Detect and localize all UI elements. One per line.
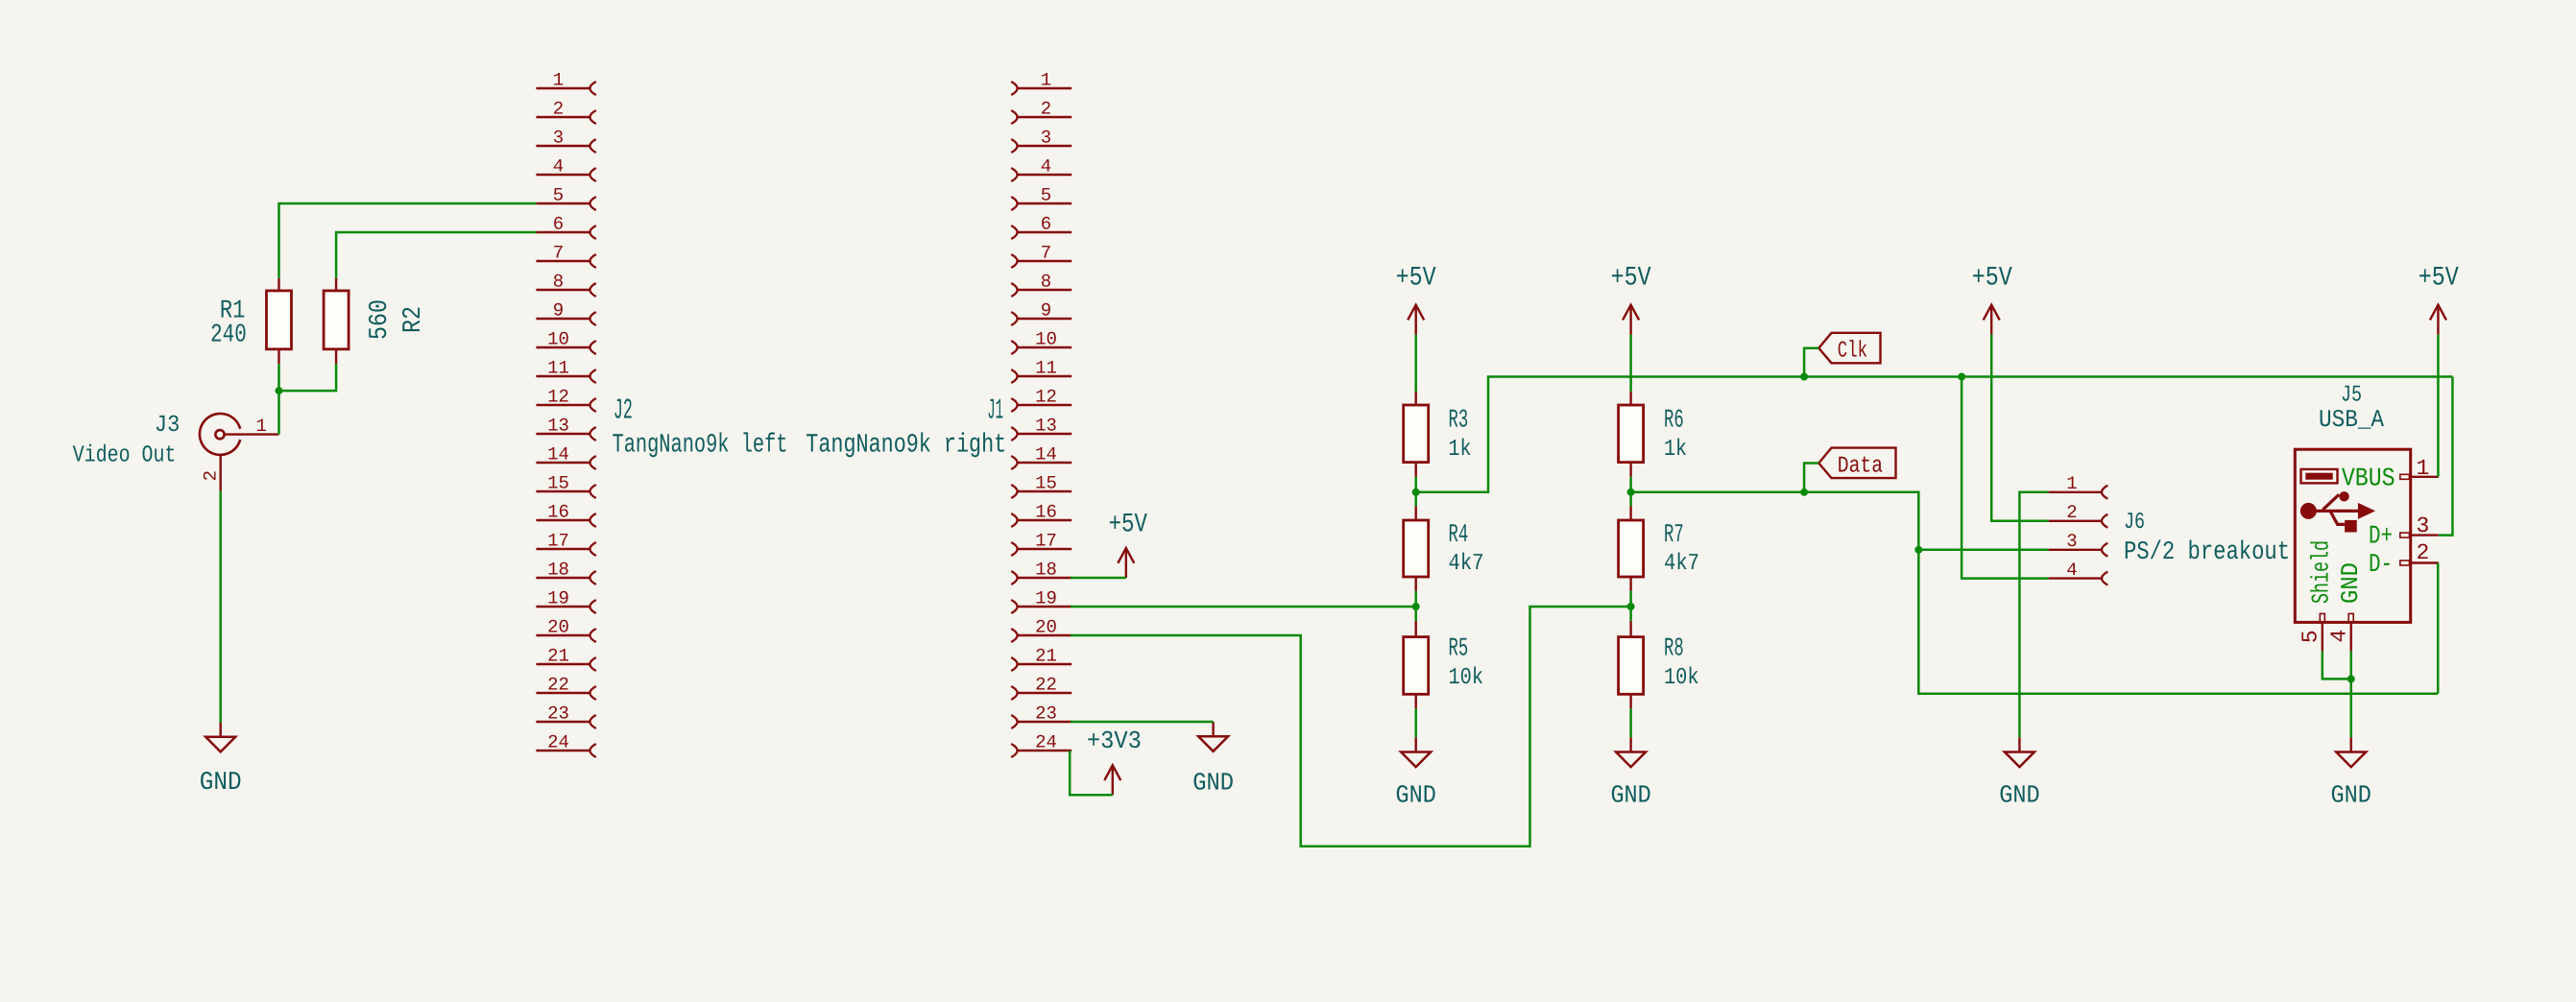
svg-text:24: 24 bbox=[547, 731, 569, 752]
svg-text:10: 10 bbox=[1035, 328, 1057, 349]
svg-text:4: 4 bbox=[1041, 155, 1051, 177]
svg-text:R2: R2 bbox=[399, 306, 428, 333]
svg-text:R8: R8 bbox=[1664, 635, 1684, 664]
svg-text:20: 20 bbox=[1035, 616, 1057, 637]
svg-text:15: 15 bbox=[547, 472, 569, 493]
svg-text:Video Out: Video Out bbox=[73, 443, 177, 469]
svg-text:9: 9 bbox=[1041, 299, 1051, 321]
svg-text:2: 2 bbox=[2416, 540, 2429, 565]
svg-text:17: 17 bbox=[547, 530, 569, 551]
svg-text:1: 1 bbox=[1041, 69, 1051, 90]
svg-text:R7: R7 bbox=[1664, 521, 1684, 550]
svg-text:1: 1 bbox=[2066, 473, 2077, 494]
svg-text:4: 4 bbox=[553, 155, 564, 177]
svg-text:PS/2 breakout: PS/2 breakout bbox=[2124, 538, 2290, 567]
svg-text:4: 4 bbox=[2066, 560, 2077, 581]
svg-text:J1: J1 bbox=[987, 395, 1003, 428]
svg-text:14: 14 bbox=[547, 443, 569, 465]
svg-text:VBUS: VBUS bbox=[2342, 465, 2395, 494]
svg-text:TangNano9k right: TangNano9k right bbox=[806, 430, 1006, 460]
svg-text:10k: 10k bbox=[1664, 665, 1699, 691]
svg-text:10: 10 bbox=[547, 328, 569, 349]
svg-text:R5: R5 bbox=[1449, 635, 1469, 664]
svg-text:11: 11 bbox=[1035, 357, 1057, 378]
svg-text:D-: D- bbox=[2369, 551, 2393, 580]
svg-text:2: 2 bbox=[1041, 98, 1051, 119]
svg-text:3: 3 bbox=[553, 127, 564, 148]
svg-text:GND: GND bbox=[2337, 562, 2365, 604]
svg-text:24: 24 bbox=[1035, 731, 1057, 752]
svg-text:GND: GND bbox=[1192, 769, 1234, 798]
svg-text:1: 1 bbox=[255, 416, 266, 437]
svg-text:18: 18 bbox=[1035, 559, 1057, 580]
svg-text:15: 15 bbox=[1035, 472, 1057, 493]
svg-text:1: 1 bbox=[553, 69, 564, 90]
svg-text:1k: 1k bbox=[1664, 437, 1687, 463]
svg-text:Shield: Shield bbox=[2308, 540, 2336, 604]
svg-text:16: 16 bbox=[1035, 501, 1057, 522]
svg-text:4k7: 4k7 bbox=[1449, 551, 1484, 577]
svg-text:1k: 1k bbox=[1449, 437, 1472, 463]
svg-text:R4: R4 bbox=[1449, 521, 1469, 550]
svg-text:11: 11 bbox=[547, 357, 569, 378]
svg-text:17: 17 bbox=[1035, 530, 1057, 551]
svg-text:12: 12 bbox=[547, 386, 569, 407]
svg-text:240: 240 bbox=[210, 321, 247, 349]
svg-text:13: 13 bbox=[547, 415, 569, 436]
svg-text:19: 19 bbox=[1035, 587, 1057, 608]
svg-text:3: 3 bbox=[2066, 531, 2077, 552]
svg-text:6: 6 bbox=[553, 213, 564, 234]
svg-text:J5: J5 bbox=[2341, 383, 2362, 409]
svg-text:12: 12 bbox=[1035, 386, 1057, 407]
svg-text:13: 13 bbox=[1035, 415, 1057, 436]
svg-text:GND: GND bbox=[1999, 781, 2039, 810]
svg-text:+5V: +5V bbox=[1611, 264, 1651, 294]
svg-text:19: 19 bbox=[547, 587, 569, 608]
svg-text:560: 560 bbox=[366, 299, 395, 340]
svg-text:4k7: 4k7 bbox=[1664, 551, 1699, 577]
svg-text:20: 20 bbox=[547, 616, 569, 637]
svg-text:21: 21 bbox=[547, 645, 569, 666]
svg-text:GND: GND bbox=[1610, 781, 1650, 810]
svg-text:2: 2 bbox=[553, 98, 564, 119]
svg-text:23: 23 bbox=[1035, 703, 1057, 724]
svg-text:22: 22 bbox=[547, 674, 569, 695]
svg-text:5: 5 bbox=[2299, 630, 2323, 643]
svg-text:9: 9 bbox=[553, 299, 564, 321]
svg-text:+3V3: +3V3 bbox=[1087, 727, 1142, 755]
svg-text:23: 23 bbox=[547, 703, 569, 724]
svg-text:GND: GND bbox=[1396, 781, 1436, 810]
svg-text:R3: R3 bbox=[1449, 407, 1469, 436]
svg-text:4: 4 bbox=[2327, 630, 2352, 643]
svg-text:+5V: +5V bbox=[2419, 264, 2459, 294]
svg-text:2: 2 bbox=[201, 470, 222, 481]
svg-text:8: 8 bbox=[1041, 271, 1051, 292]
svg-text:7: 7 bbox=[1041, 242, 1051, 263]
svg-text:GND: GND bbox=[2331, 781, 2371, 810]
svg-text:5: 5 bbox=[1041, 184, 1051, 205]
svg-text:1: 1 bbox=[2416, 456, 2429, 481]
svg-text:D+: D+ bbox=[2369, 522, 2393, 551]
svg-text:10k: 10k bbox=[1449, 665, 1484, 691]
svg-text:7: 7 bbox=[553, 242, 564, 263]
svg-text:J6: J6 bbox=[2124, 510, 2145, 536]
svg-text:6: 6 bbox=[1041, 213, 1051, 234]
svg-text:Clk: Clk bbox=[1838, 339, 1867, 365]
svg-text:22: 22 bbox=[1035, 674, 1057, 695]
svg-text:14: 14 bbox=[1035, 443, 1057, 465]
svg-text:5: 5 bbox=[553, 184, 564, 205]
svg-text:USB_A: USB_A bbox=[2319, 406, 2385, 434]
svg-text:R6: R6 bbox=[1664, 407, 1684, 436]
svg-text:18: 18 bbox=[547, 559, 569, 580]
svg-text:3: 3 bbox=[1041, 127, 1051, 148]
svg-text:+5V: +5V bbox=[1972, 264, 2012, 294]
svg-text:J2: J2 bbox=[614, 395, 633, 428]
svg-text:J3: J3 bbox=[155, 413, 180, 439]
svg-text:TangNano9k left: TangNano9k left bbox=[613, 430, 788, 460]
svg-text:21: 21 bbox=[1035, 645, 1057, 666]
svg-text:GND: GND bbox=[200, 769, 242, 798]
svg-text:3: 3 bbox=[2416, 513, 2429, 538]
svg-text:16: 16 bbox=[547, 501, 569, 522]
svg-text:+5V: +5V bbox=[1396, 264, 1436, 294]
svg-text:Data: Data bbox=[1838, 453, 1883, 479]
svg-text:8: 8 bbox=[553, 271, 564, 292]
svg-text:+5V: +5V bbox=[1109, 510, 1148, 539]
svg-text:2: 2 bbox=[2066, 502, 2077, 523]
